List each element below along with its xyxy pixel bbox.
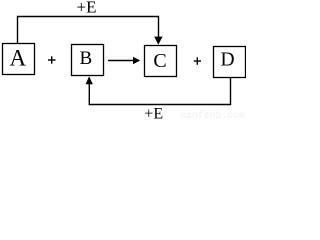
svg-text:+E: +E [144,105,163,121]
arrow B to C [108,57,140,65]
box A [3,44,35,75]
arrowhead up into B [86,76,93,84]
svg-text:D: D [221,50,235,71]
box D [214,47,246,78]
box C [145,46,177,77]
svg-text:+E: +E [77,0,97,17]
arrowhead down into C [154,37,162,45]
bottom feedback wire from below D to below B [89,78,230,105]
plus sign between C and D [194,57,201,65]
svg-text:B: B [79,48,92,69]
svg-text:A: A [9,46,26,71]
plus sign between A and B [48,56,56,63]
svg-text:manfen5.com: manfen5.com [180,110,245,121]
box B [72,45,104,76]
top feedback wire from above A to above C [18,17,159,44]
svg-text:C: C [153,50,166,72]
